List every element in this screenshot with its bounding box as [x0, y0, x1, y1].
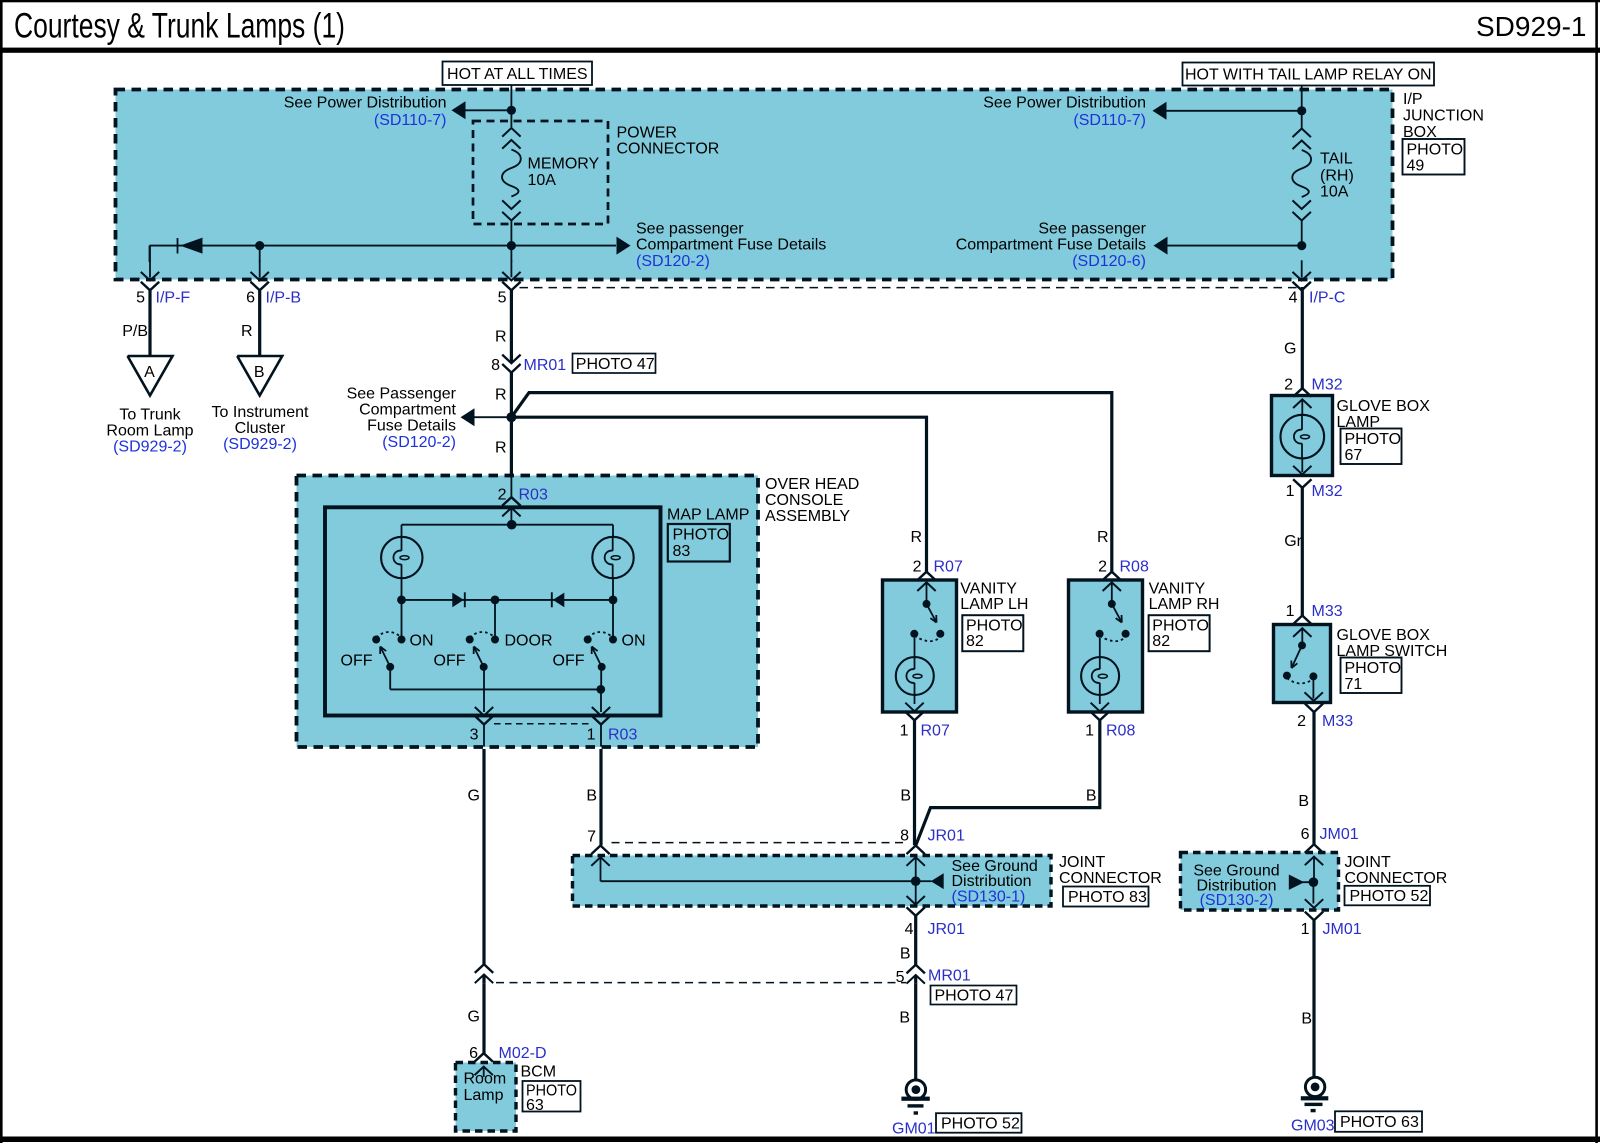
svg-text:R: R — [495, 387, 507, 404]
svg-text:5: 5 — [498, 290, 507, 307]
svg-text:JM01: JM01 — [1320, 826, 1359, 843]
svg-text:MEMORY: MEMORY — [528, 156, 600, 173]
svg-text:R03: R03 — [519, 487, 548, 504]
svg-text:See Power Distribution: See Power Distribution — [983, 95, 1146, 112]
svg-text:CONNECTOR: CONNECTOR — [1059, 870, 1162, 887]
svg-text:MR01: MR01 — [524, 357, 567, 374]
svg-text:I/P: I/P — [1403, 91, 1423, 108]
svg-text:CONNECTOR: CONNECTOR — [1345, 870, 1448, 887]
svg-text:I/P-C: I/P-C — [1309, 290, 1345, 307]
svg-text:10A: 10A — [1320, 184, 1349, 201]
svg-text:4: 4 — [1289, 290, 1298, 307]
svg-text:1: 1 — [1301, 921, 1310, 938]
svg-text:(SD120-2): (SD120-2) — [382, 434, 456, 451]
svg-text:G: G — [468, 1009, 480, 1026]
svg-text:VANITY: VANITY — [1149, 581, 1206, 598]
svg-text:(SD929-2): (SD929-2) — [113, 439, 187, 456]
svg-text:71: 71 — [1345, 676, 1363, 693]
svg-text:2: 2 — [913, 559, 922, 576]
svg-text:PHOTO: PHOTO — [1152, 618, 1209, 635]
svg-text:GM03: GM03 — [1291, 1118, 1335, 1135]
svg-text:Room: Room — [464, 1071, 507, 1088]
svg-text:To Instrument: To Instrument — [212, 404, 309, 421]
svg-text:Courtesy & Trunk Lamps (1): Courtesy & Trunk Lamps (1) — [14, 6, 345, 46]
svg-text:B: B — [1301, 1011, 1312, 1028]
svg-text:5: 5 — [136, 290, 145, 307]
svg-text:PHOTO: PHOTO — [1407, 142, 1464, 159]
svg-text:PHOTO 63: PHOTO 63 — [1340, 1114, 1419, 1131]
svg-text:82: 82 — [966, 633, 984, 650]
svg-text:BCM: BCM — [521, 1064, 557, 1081]
svg-text:R: R — [495, 329, 507, 346]
svg-text:POWER: POWER — [617, 125, 677, 142]
svg-text:R: R — [241, 323, 253, 340]
svg-text:M33: M33 — [1312, 603, 1343, 620]
svg-text:B: B — [900, 788, 911, 805]
svg-text:ON: ON — [410, 633, 434, 650]
svg-text:OVER HEAD: OVER HEAD — [765, 476, 859, 493]
svg-text:3: 3 — [470, 727, 479, 744]
svg-text:Cluster: Cluster — [235, 420, 286, 437]
svg-text:R: R — [495, 440, 507, 457]
svg-text:PHOTO 83: PHOTO 83 — [1068, 889, 1147, 906]
svg-text:1: 1 — [1286, 603, 1295, 620]
svg-text:B: B — [1298, 793, 1309, 810]
svg-text:JR01: JR01 — [928, 828, 965, 845]
svg-text:PHOTO 47: PHOTO 47 — [935, 988, 1014, 1005]
svg-text:P/B: P/B — [122, 323, 148, 340]
svg-text:Gr: Gr — [1284, 533, 1302, 550]
svg-text:(SD110-7): (SD110-7) — [374, 112, 447, 129]
svg-text:M02-D: M02-D — [499, 1045, 547, 1062]
svg-text:B: B — [586, 788, 597, 805]
svg-text:M33: M33 — [1322, 713, 1353, 730]
svg-text:B: B — [254, 364, 265, 381]
svg-text:GM01: GM01 — [892, 1121, 936, 1138]
svg-text:JOINT: JOINT — [1345, 854, 1391, 871]
svg-text:OFF: OFF — [434, 653, 466, 670]
svg-text:6: 6 — [246, 290, 255, 307]
svg-text:G: G — [468, 788, 480, 805]
svg-text:HOT AT ALL TIMES: HOT AT ALL TIMES — [447, 66, 588, 83]
svg-text:R07: R07 — [934, 559, 963, 576]
svg-text:See passenger: See passenger — [636, 221, 744, 238]
svg-text:B: B — [899, 1010, 910, 1027]
svg-text:Compartment Fuse Details: Compartment Fuse Details — [636, 237, 826, 254]
svg-text:49: 49 — [1407, 158, 1425, 175]
svg-text:R08: R08 — [1120, 559, 1149, 576]
svg-text:LAMP LH: LAMP LH — [960, 596, 1028, 613]
svg-text:67: 67 — [1345, 447, 1363, 464]
svg-text:CONSOLE: CONSOLE — [765, 492, 843, 509]
svg-text:(SD130-1): (SD130-1) — [952, 889, 1026, 906]
svg-text:4: 4 — [905, 921, 914, 938]
svg-text:10A: 10A — [528, 172, 557, 189]
svg-text:ON: ON — [622, 633, 646, 650]
svg-text:2: 2 — [1284, 377, 1293, 394]
svg-text:R07: R07 — [921, 723, 950, 740]
svg-text:See Power Distribution: See Power Distribution — [284, 95, 447, 112]
svg-text:MAP LAMP: MAP LAMP — [667, 507, 749, 524]
svg-text:PHOTO: PHOTO — [1345, 660, 1402, 677]
svg-text:OFF: OFF — [341, 653, 373, 670]
svg-text:M32: M32 — [1312, 377, 1343, 394]
svg-text:PHOTO 47: PHOTO 47 — [576, 356, 655, 373]
svg-text:B: B — [1086, 788, 1097, 805]
svg-text:2: 2 — [498, 487, 507, 504]
svg-text:Lamp: Lamp — [464, 1087, 504, 1104]
svg-text:See passenger: See passenger — [1038, 221, 1146, 238]
svg-text:Room Lamp: Room Lamp — [106, 423, 193, 440]
svg-text:(SD130-2): (SD130-2) — [1200, 892, 1274, 909]
svg-text:CONNECTOR: CONNECTOR — [617, 141, 720, 158]
svg-text:82: 82 — [1152, 633, 1170, 650]
svg-text:1: 1 — [1085, 723, 1094, 740]
svg-text:SD929-1: SD929-1 — [1476, 11, 1587, 42]
svg-text:See Passenger: See Passenger — [347, 386, 457, 403]
svg-text:I/P-F: I/P-F — [156, 290, 191, 307]
svg-text:8: 8 — [491, 357, 500, 374]
svg-text:A: A — [144, 364, 155, 381]
svg-text:R03: R03 — [608, 727, 637, 744]
svg-text:2: 2 — [1297, 713, 1306, 730]
svg-text:GLOVE BOX: GLOVE BOX — [1337, 398, 1431, 415]
svg-text:5: 5 — [896, 969, 905, 986]
svg-text:M32: M32 — [1312, 483, 1343, 500]
svg-text:ASSEMBLY: ASSEMBLY — [765, 508, 850, 525]
svg-text:JR01: JR01 — [928, 921, 965, 938]
svg-text:63: 63 — [526, 1097, 544, 1114]
svg-text:G: G — [1284, 341, 1296, 358]
svg-text:(SD120-6): (SD120-6) — [1072, 253, 1146, 270]
svg-text:PHOTO 52: PHOTO 52 — [1350, 888, 1429, 905]
svg-text:7: 7 — [587, 829, 596, 846]
svg-text:R08: R08 — [1106, 723, 1135, 740]
svg-text:Compartment Fuse Details: Compartment Fuse Details — [956, 237, 1146, 254]
svg-text:VANITY: VANITY — [960, 581, 1017, 598]
svg-text:To Trunk: To Trunk — [119, 407, 181, 424]
svg-text:I/P-B: I/P-B — [266, 290, 302, 307]
svg-text:2: 2 — [1098, 559, 1107, 576]
svg-text:(SD929-2): (SD929-2) — [223, 436, 297, 453]
svg-text:(SD110-7): (SD110-7) — [1073, 112, 1146, 129]
svg-text:1: 1 — [587, 727, 596, 744]
svg-text:DOOR: DOOR — [505, 633, 553, 650]
svg-text:R: R — [1097, 529, 1109, 546]
svg-text:JOINT: JOINT — [1059, 854, 1105, 871]
svg-text:Compartment: Compartment — [359, 402, 456, 419]
svg-text:JUNCTION: JUNCTION — [1403, 108, 1484, 125]
svg-text:PHOTO: PHOTO — [966, 618, 1023, 635]
svg-text:1: 1 — [900, 723, 909, 740]
svg-text:JM01: JM01 — [1323, 921, 1362, 938]
svg-text:6: 6 — [1301, 826, 1310, 843]
svg-text:PHOTO: PHOTO — [673, 527, 730, 544]
svg-text:(SD120-2): (SD120-2) — [636, 253, 710, 270]
svg-text:1: 1 — [1286, 483, 1295, 500]
svg-text:MR01: MR01 — [928, 968, 971, 985]
svg-text:PHOTO: PHOTO — [1345, 431, 1402, 448]
svg-text:HOT WITH TAIL LAMP RELAY ON: HOT WITH TAIL LAMP RELAY ON — [1185, 67, 1432, 84]
svg-text:TAIL: TAIL — [1320, 151, 1353, 168]
svg-text:R: R — [910, 529, 922, 546]
svg-text:Fuse Details: Fuse Details — [367, 418, 456, 435]
svg-text:83: 83 — [673, 543, 691, 560]
svg-text:OFF: OFF — [553, 653, 585, 670]
svg-text:B: B — [900, 946, 911, 963]
svg-text:GLOVE BOX: GLOVE BOX — [1337, 627, 1431, 644]
svg-text:PHOTO 52: PHOTO 52 — [941, 1116, 1020, 1133]
svg-text:(RH): (RH) — [1320, 168, 1354, 185]
svg-text:LAMP RH: LAMP RH — [1149, 596, 1220, 613]
